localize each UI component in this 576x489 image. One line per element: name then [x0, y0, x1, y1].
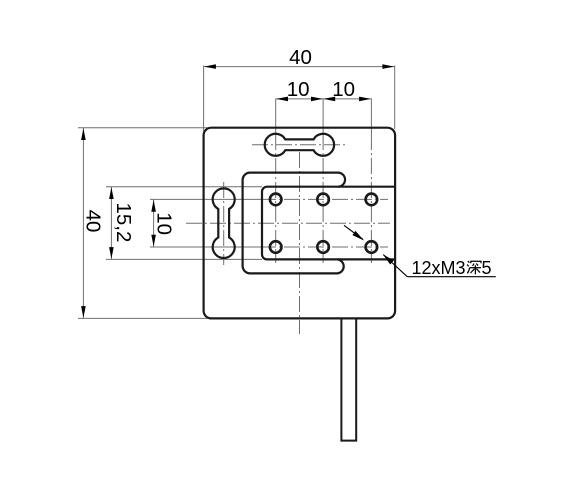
plate outline 40x40	[204, 128, 396, 319]
svg-text:15,2: 15,2	[112, 202, 135, 242]
centerline col2 vertical	[322, 99, 324, 135]
extension line 15,2 bottom	[106, 258, 262, 260]
tapped hole M3 #2	[317, 194, 329, 206]
centerline hole row2 horizontal	[150, 246, 260, 248]
leader line lower segment	[383, 255, 407, 277]
tapped hole M3 #6	[366, 241, 378, 253]
tapped hole M3 #5	[317, 241, 329, 253]
leader line upper segment	[344, 225, 363, 239]
extension line left-40 top	[78, 127, 209, 129]
label glyph shen (depth)	[468, 261, 470, 263]
centerline col3 vertical	[370, 99, 372, 135]
svg-text:10: 10	[152, 212, 175, 235]
extension line top-40 right	[394, 66, 396, 130]
stem (bottom shaft)	[341, 319, 356, 440]
extension line left-40 bottom	[78, 317, 209, 319]
left dog-bone slot	[213, 188, 235, 258]
centerline col1 vertical	[275, 99, 277, 135]
tapped hole M3 #3	[366, 194, 378, 206]
dimension line 10 left	[153, 199, 155, 247]
dimension line 40 left	[82, 128, 84, 319]
svg-text:10: 10	[332, 78, 355, 101]
dimension line 40 top	[204, 66, 395, 68]
svg-text:40: 40	[289, 46, 312, 69]
top dog-bone slot	[265, 134, 334, 156]
dimension line 10-10 top	[276, 98, 372, 100]
dimension line 15,2 left	[110, 187, 112, 260]
stage table outline	[262, 187, 395, 260]
centerline plate middle horizontal	[186, 222, 390, 224]
svg-text:12xM3: 12xM3	[412, 258, 466, 278]
svg-text:10: 10	[287, 78, 310, 101]
tapped hole M3 #4	[270, 241, 282, 253]
tapped hole M3 #1	[270, 194, 282, 206]
extension line top-40 left	[203, 66, 205, 132]
extension line 15,2 top	[106, 186, 262, 188]
svg-text:40: 40	[82, 210, 105, 233]
centerline plate middle vertical	[299, 152, 301, 334]
centerline hole row1 horizontal	[150, 198, 260, 200]
svg-text:5: 5	[482, 258, 492, 278]
C-shaped slot outline	[243, 173, 345, 274]
leader underline	[407, 276, 496, 278]
centerline left dog-bone vertical	[223, 182, 225, 265]
centerline top dog-bone horizontal	[252, 144, 346, 146]
